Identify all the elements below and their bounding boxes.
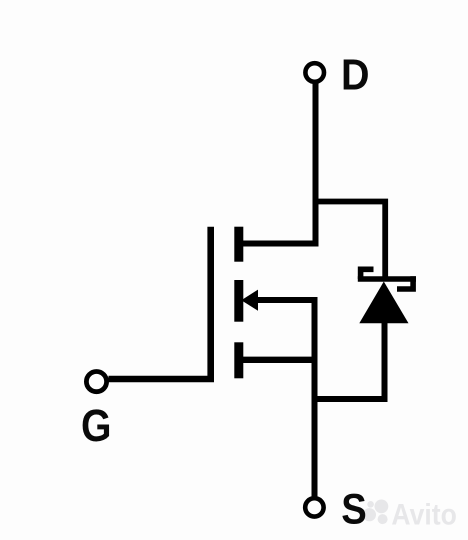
svg-text:Avito: Avito [391, 499, 456, 532]
svg-text:G: G [81, 400, 112, 451]
svg-text:S: S [341, 487, 367, 534]
svg-text:D: D [341, 51, 370, 100]
